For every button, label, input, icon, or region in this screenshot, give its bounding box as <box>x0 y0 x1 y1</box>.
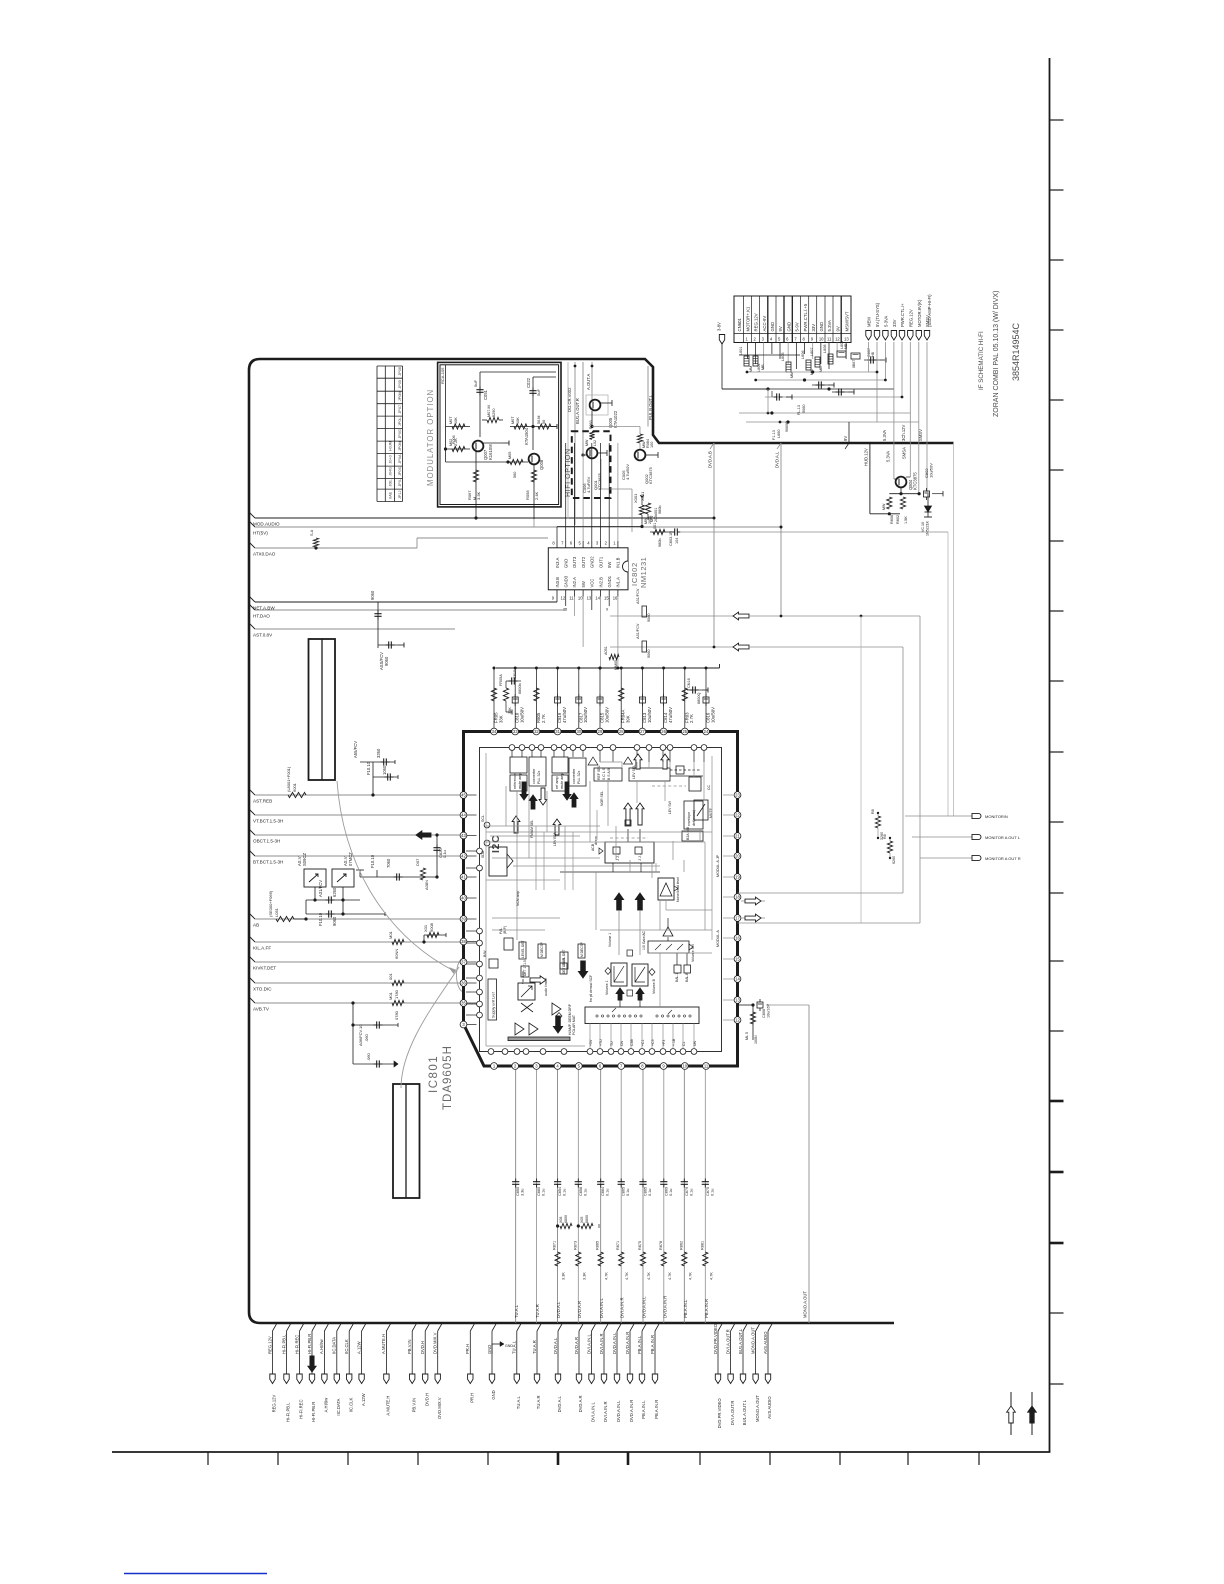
IC801 bottom pin 1 <box>491 1063 498 1070</box>
svg-text:(SSD-AMP-HI-FI): (SSD-AMP-HI-FI) <box>927 294 932 327</box>
svg-text:MOTOR.9V(K): MOTOR.9V(K) <box>917 299 922 327</box>
noise beat level block <box>658 878 674 900</box>
wire riser to Q005 <box>591 362 593 400</box>
svg-text:6800b: 6800b <box>518 683 522 694</box>
svg-text:PUL.B.OUT.L: PUL.B.OUT.L <box>648 394 653 420</box>
svg-text:DVI.A.IN.L: DVI.A.IN.L <box>591 1402 596 1422</box>
transistor Q005 KTA1022 <box>586 395 608 415</box>
svg-text:21: 21 <box>735 834 740 839</box>
IC802 pin 9 <box>556 590 558 597</box>
svg-text:30: 30 <box>576 729 581 734</box>
branch node on AVB.TV <box>351 1001 354 1004</box>
svg-text:M DECSP: M DECSP <box>580 941 584 957</box>
power pin 33V <box>891 331 896 341</box>
svg-text:DO.CR.V002: DO.CR.V002 <box>567 387 572 412</box>
long horizontal wires interior <box>486 825 600 827</box>
svg-text:M01: M01 <box>388 930 393 939</box>
svg-text:BU1.A.OUT.L: BU1.A.OUT.L <box>738 1328 743 1354</box>
wire riser A.OUT.A <box>582 362 584 455</box>
svg-text:1N5221K: 1N5221K <box>926 520 930 536</box>
svg-text:IIC.CLK: IIC.CLK <box>344 1339 349 1354</box>
svg-text:HUD.12V: HUD.12V <box>864 448 869 466</box>
wire to monitor pins <box>947 532 949 816</box>
power pin 5V.(TU-SYS) <box>874 331 879 341</box>
svg-text:I2C: I2C <box>490 835 502 853</box>
transistor Q007 K1610M <box>473 441 484 452</box>
svg-text:DVD.A.IN.L: DVD.A.IN.L <box>616 1400 621 1422</box>
svg-text:001: 001 <box>653 523 657 529</box>
svg-text:J04G: J04G <box>389 467 393 476</box>
capacitor A31/FCV 6260 <box>306 899 360 901</box>
extra dots supply bus <box>599 667 602 670</box>
svg-text:IF SCHEMATIC HI-FI: IF SCHEMATIC HI-FI <box>978 331 985 390</box>
svg-text:L051: L051 <box>274 907 279 917</box>
svg-text:3Ch.12V: 3Ch.12V <box>901 424 906 441</box>
monitor pin A L <box>972 834 981 839</box>
svg-text:2.7K: 2.7K <box>689 714 694 723</box>
capacitor C858 0.1u <box>577 1179 579 1182</box>
switch cross <box>521 1003 533 1012</box>
resistor R806 <box>887 497 892 509</box>
MONO_A_OUT drop wire <box>808 1005 810 1323</box>
IC801 bottom pin 9 <box>660 1063 667 1070</box>
resistor (SE000+F066) L051 <box>276 916 294 921</box>
svg-text:0.1u: 0.1u <box>689 1189 693 1196</box>
svg-text:HB: HB <box>871 351 875 357</box>
svg-text:39: 39 <box>461 917 466 922</box>
capacitor C810 10u/50V <box>514 668 516 728</box>
IC801 left pin 3 <box>460 1021 467 1028</box>
svg-text:REG.12V: REG.12V <box>267 1336 272 1354</box>
svg-text:AST.REB: AST.REB <box>253 799 272 804</box>
capacitor C854 0.1u <box>557 1179 559 1182</box>
svg-text:104: 104 <box>675 538 679 544</box>
svg-text:0780: 0780 <box>394 1010 399 1020</box>
svg-text:A31/FCV: A31/FCV <box>318 880 323 897</box>
svg-text:JP0G: JP0G <box>398 429 402 439</box>
svg-text:0.1u: 0.1u <box>563 1189 567 1196</box>
IC801 top pin 33 <box>512 728 519 735</box>
bw box <box>489 959 498 968</box>
svg-text:GND1: GND1 <box>607 575 612 587</box>
svg-text:DVI.A.IN.L: DVI.A.IN.L <box>599 1298 604 1318</box>
svg-text:A051: A051 <box>604 646 608 655</box>
opamp pair bottom-left <box>515 1023 524 1035</box>
IC802 pin 1 <box>617 541 619 548</box>
svg-text:4.7K: 4.7K <box>647 1272 651 1280</box>
svg-text:A08N: A08N <box>424 880 429 890</box>
IC802 pin 5 <box>582 541 584 548</box>
bottom connector DVD.PR.VIDEO <box>718 1324 722 1331</box>
svg-text:10K: 10K <box>454 417 458 424</box>
svg-text:DVD.H: DVD.H <box>420 1341 425 1354</box>
svg-text:4.7K: 4.7K <box>688 1272 692 1280</box>
bottom connector DVD.A.IN.L <box>617 1324 621 1331</box>
resistor R865 4.7K <box>598 1252 603 1266</box>
block top-left 4 <box>569 758 586 786</box>
interior bus to deemph <box>535 826 537 890</box>
svg-text:A.OUT.A: A.OUT.A <box>586 374 591 390</box>
IC801 inner bottom pins <box>488 1049 494 1055</box>
svg-text:14: 14 <box>735 977 740 982</box>
svg-text:MM: MM <box>749 366 753 372</box>
resistor R881 4.7K <box>703 1252 708 1266</box>
svg-text:C869: C869 <box>664 1187 668 1196</box>
svg-text:38: 38 <box>461 939 466 944</box>
wire net BT.BCT.1.5-3H <box>249 850 255 856</box>
svg-text:TU.A.R: TU.A.R <box>535 1304 540 1318</box>
wire IC801 pin column 9 <box>683 1070 685 1324</box>
wire riser DO.CR.V002 <box>567 362 569 519</box>
svg-text:100: 100 <box>650 442 654 448</box>
svg-text:IN3.A: IN3.A <box>555 557 560 568</box>
IC802 top pin wires <box>565 443 567 541</box>
loop return wire lower <box>738 892 904 894</box>
svg-text:3.3u: 3.3u <box>521 1189 525 1196</box>
crossbar drop wires <box>589 1024 591 1049</box>
svg-text:9008: 9008 <box>429 922 434 932</box>
svg-text:GND: GND <box>505 1344 513 1348</box>
svg-text:R806: R806 <box>890 515 894 524</box>
svg-text:R873: R873 <box>573 1241 577 1250</box>
svg-text:DVD.A.IN.R: DVD.A.IN.R <box>625 1332 630 1354</box>
svg-text:B/W: B/W <box>483 950 487 957</box>
svg-text:PB.A.IN.R: PB.A.IN.R <box>654 1400 659 1419</box>
svg-text:PLL 32x: PLL 32x <box>537 770 541 784</box>
svg-text:GND: GND <box>786 322 791 332</box>
svg-text:MODULATOR OPTION: MODULATOR OPTION <box>426 389 435 486</box>
IC801 right pin 18 <box>734 894 741 901</box>
capacitor pair on AST.REB node <box>372 762 374 795</box>
svg-text:OUT2: OUT2 <box>581 556 586 568</box>
IC802 pin 13 <box>591 590 593 597</box>
svg-text:16: 16 <box>735 936 740 941</box>
svg-text:+.1B: +.1B <box>672 1038 676 1046</box>
wire rail in modulator <box>445 365 447 462</box>
svg-text:A.MUTE.H: A.MUTE.H <box>381 1334 386 1354</box>
svg-text:CN601: CN601 <box>737 318 742 332</box>
resistor R058 2.4K <box>531 470 536 482</box>
resistor FR05 33K <box>493 668 495 728</box>
IC801 top pin 28 <box>618 728 625 735</box>
svg-text:LEVEL DET: LEVEL DET <box>521 940 525 958</box>
IC801 right pin 16 <box>734 935 741 942</box>
svg-text:MB: MB <box>761 364 765 370</box>
svg-text:AVB.TV: AVB.TV <box>253 1007 270 1012</box>
svg-text:HI-FI.PB.L: HI-FI.PB.L <box>281 1334 286 1354</box>
svg-text:IN2.A: IN2.A <box>572 577 577 588</box>
svg-text:TU.A.R: TU.A.R <box>536 1395 541 1409</box>
svg-text:10u/16V: 10u/16V <box>767 1003 771 1018</box>
IC801 left pin 42 <box>460 853 467 860</box>
capacitor C879 0.1u <box>683 1179 685 1182</box>
svg-text:PB.V.IN: PB.V.IN <box>407 1339 412 1354</box>
svg-text:41: 41 <box>461 875 466 880</box>
wire Q008 emitter down <box>533 465 535 519</box>
svg-text:C806: C806 <box>762 1009 766 1018</box>
svg-text:13: 13 <box>587 596 592 601</box>
frame tick marks bottom edge <box>207 1452 209 1465</box>
block top-left 2 <box>529 757 546 786</box>
black arrow pair mid <box>614 893 623 910</box>
resistor R805 2.7K <box>535 668 537 728</box>
svg-text:R058: R058 <box>525 490 530 500</box>
svg-text:5W: 5W <box>581 581 586 587</box>
svg-text:5W: 5W <box>607 562 612 568</box>
capacitor C850 3.3u <box>515 1179 517 1182</box>
svg-text:CN16: CN16 <box>687 678 691 688</box>
svg-text:GND: GND <box>487 1345 492 1354</box>
mute switch block <box>694 800 708 820</box>
capacitor C-net 9060 on HT.DAO <box>377 602 379 629</box>
IC801 right pin 14 <box>734 976 741 983</box>
IC802 pin 14 <box>600 590 602 597</box>
resistor L8001+F001 6001 on AST.REB <box>288 792 306 797</box>
deemphasis block <box>605 842 654 863</box>
svg-text:10u/50V: 10u/50V <box>647 707 652 723</box>
IC801 right pin 17 <box>734 915 741 922</box>
IC801 left pin 39 <box>460 916 467 923</box>
svg-text:13: 13 <box>735 998 740 1003</box>
connector CN601 table <box>734 296 851 343</box>
svg-text:F1.13: F1.13 <box>772 430 776 440</box>
svg-text:DVD.A.L: DVD.A.L <box>556 1301 561 1318</box>
IC801 bottom pin 6 <box>597 1063 604 1070</box>
svg-text:KTA1504: KTA1504 <box>524 427 529 445</box>
node and wire to R064 <box>591 411 593 427</box>
svg-text:R862: R862 <box>679 1241 683 1250</box>
svg-text:mute amp: mute amp <box>518 773 522 789</box>
IC802 pin 7 <box>565 541 567 548</box>
svg-text:10u/50V: 10u/50V <box>583 707 588 723</box>
IC801 left pin 44 <box>460 812 467 819</box>
wire net ATX0.DAO <box>249 542 255 548</box>
svg-text:DVD.A.R: DVD.A.R <box>574 1337 579 1354</box>
svg-text:CN: CN <box>620 1040 624 1046</box>
svg-text:J0E.: J0E. <box>389 479 393 487</box>
svg-text:0.1u: 0.1u <box>583 1189 587 1196</box>
svg-text:converter: converter <box>572 768 576 784</box>
svg-text:IN3.B: IN3.B <box>555 577 560 588</box>
svg-text:4.7K: 4.7K <box>709 1272 713 1280</box>
svg-text:POLAR MAT: POLAR MAT <box>572 1014 576 1035</box>
inductor L608 <box>828 354 833 364</box>
op IC801 TDA9605H outer body <box>464 732 738 1067</box>
svg-text:R067: R067 <box>467 490 472 500</box>
wire with hollow arrow (lower) <box>610 646 733 648</box>
svg-text:+TU: +TU <box>599 1039 603 1046</box>
wires from blocks to pins <box>511 751 513 758</box>
svg-text:20: 20 <box>735 854 740 859</box>
svg-text:C860: C860 <box>537 1187 541 1196</box>
IC801 bottom pin 2 <box>512 1063 519 1070</box>
page navigation arrow (filled) <box>1031 1392 1033 1435</box>
svg-text:JP0J: JP0J <box>398 478 402 487</box>
svg-text:M0T: M0T <box>449 416 453 424</box>
shield block rectangle upper <box>309 639 336 780</box>
svg-text:C850: C850 <box>516 1187 520 1196</box>
svg-text:NM1231: NM1231 <box>639 557 648 588</box>
svg-text:NCM amp: NCM amp <box>516 891 520 906</box>
capacitor C813 10u/50V <box>641 668 643 728</box>
svg-text:SDA: SDA <box>481 850 485 858</box>
page frame bottom border line <box>112 1451 1050 1453</box>
svg-text:39K: 39K <box>626 715 631 723</box>
IC802 pin 12 <box>565 590 567 597</box>
resistor M01 0780 on AVB.TV <box>392 1000 404 1005</box>
wire jog net ATX0.DAO <box>416 538 418 548</box>
inductor L606 <box>806 360 811 370</box>
svg-text:JP0L: JP0L <box>398 417 402 426</box>
bottom connector BU1.A.OUT.L <box>743 1324 747 1331</box>
svg-text:PB.A.IN.L: PB.A.IN.L <box>637 1335 642 1354</box>
svg-text:37: 37 <box>461 960 466 965</box>
block top-left 3 <box>552 757 568 773</box>
svg-text:9060: 9060 <box>647 650 651 658</box>
IC802 pin 4 <box>591 541 593 548</box>
svg-text:TU.A.R: TU.A.R <box>532 1340 537 1354</box>
wire Q007 emitter down <box>475 452 477 518</box>
svg-text:JP0S: JP0S <box>398 466 402 476</box>
bottom connector DVD.H <box>425 1324 429 1331</box>
IC801 top pin 24 <box>703 728 710 735</box>
resistor X001 200b <box>645 503 650 514</box>
svg-text:XTO.DIC: XTO.DIC <box>253 987 272 992</box>
svg-text:PB.A.IN.R: PB.A.IN.R <box>704 1299 709 1318</box>
svg-text:R865: R865 <box>596 1241 600 1250</box>
level det blocks row <box>519 942 526 959</box>
svg-text:OBCT.1.5-3H: OBCT.1.5-3H <box>253 839 280 844</box>
svg-text:MODUL.A.JP: MODUL.A.JP <box>716 854 720 877</box>
svg-text:10u/50V: 10u/50V <box>604 707 609 723</box>
svg-text:AVS.AUDIO: AVS.AUDIO <box>763 1331 768 1354</box>
svg-text:DVD.A.IN.L: DVD.A.IN.L <box>612 1332 617 1354</box>
svg-text:+C1: +C1 <box>641 1039 645 1046</box>
wire net OBCT.1.5-3H <box>249 829 255 835</box>
svg-text:MM: MM <box>790 372 794 378</box>
svg-text:0B67: 0B67 <box>852 360 856 368</box>
wire riser BU1.A.OUT.R <box>574 362 576 525</box>
svg-text:IIC.CLK: IIC.CLK <box>348 1398 353 1413</box>
wire IC801 pin column 5 <box>600 1070 602 1324</box>
svg-text:L02: L02 <box>593 440 597 446</box>
wire net AVB.TV <box>249 997 255 1003</box>
svg-text:42: 42 <box>461 854 466 859</box>
volume select bar <box>648 941 689 953</box>
interior mid connection wires <box>636 781 638 803</box>
svg-text:100N: 100N <box>754 1035 758 1044</box>
resistor R873 3.3K <box>576 1252 581 1266</box>
svg-text:9060: 9060 <box>802 405 806 413</box>
svg-text:25: 25 <box>563 608 567 612</box>
svg-text:33: 33 <box>513 729 518 734</box>
svg-text:4.7K: 4.7K <box>668 1272 672 1280</box>
supply unit block <box>488 979 497 1020</box>
svg-text:LEV SW: LEV SW <box>668 800 672 814</box>
IC801 top pin 30 <box>575 728 582 735</box>
capacitor C865 0.1u <box>642 1179 644 1182</box>
power pin REG.12V <box>908 331 913 341</box>
supply bus above IC801 <box>496 667 720 669</box>
svg-text:0.1u: 0.1u <box>606 1189 610 1196</box>
svg-text:0.1u: 0.1u <box>710 1189 714 1196</box>
svg-text:deem: deem <box>594 836 598 845</box>
svg-text:5V.(TU-SYS): 5V.(TU-SYS) <box>875 302 880 327</box>
wire IC801 pin column 2 <box>536 1070 538 1324</box>
svg-text:DVD.PR.VIDEO: DVD.PR.VIDEO <box>713 1323 718 1354</box>
svg-text:A.MUTE.H: A.MUTE.H <box>386 1396 391 1416</box>
svg-text:9060: 9060 <box>647 614 651 622</box>
IC801 top pin 29 <box>597 728 604 735</box>
power pin SMSV <box>924 331 929 341</box>
capacitor .060 lower <box>353 1063 398 1065</box>
svg-text:C865: C865 <box>622 1187 626 1196</box>
svg-text:3-8V: 3-8V <box>717 322 722 331</box>
svg-text:ACC-9V: ACC-9V <box>762 316 767 332</box>
hyperlink underline bottom-left <box>124 1573 267 1575</box>
capacitor C815 10u/50V <box>599 668 601 728</box>
svg-text:A.12W: A.12W <box>356 1341 361 1354</box>
IC801 bottom pin 11 <box>703 1063 710 1070</box>
block reference top-left 1 <box>510 757 527 773</box>
svg-text:DVI.A.IN.R: DVI.A.IN.R <box>599 1334 604 1354</box>
svg-text:IIC.DATA: IIC.DATA <box>336 1398 341 1415</box>
svg-text:HI-FI.PB.L: HI-FI.PB.L <box>286 1402 291 1422</box>
IC801 top pin 31 <box>554 728 561 735</box>
svg-text:DVD.A.B: DVD.A.B <box>708 451 713 468</box>
wire net AB <box>249 913 255 919</box>
IC801 left pin 41 <box>460 874 467 881</box>
svg-text:10: 10 <box>578 596 583 601</box>
shield block rectangle lower <box>393 1084 420 1198</box>
svg-text:A31/FCV: A31/FCV <box>636 623 640 639</box>
svg-text:+C9: +C9 <box>651 1039 655 1046</box>
wire riser PUL.B.OUT.L <box>647 366 649 427</box>
svg-text:envelope: envelope <box>687 812 691 826</box>
svg-text:H0JM: H0JM <box>389 441 393 451</box>
resistor R802 1.5K <box>900 497 905 509</box>
svg-text:PWR.CTL./.+5: PWR.CTL./.+5 <box>803 303 808 331</box>
svg-text:ZORAN COMBI PAL 05.10.13 (W/ D: ZORAN COMBI PAL 05.10.13 (W/ DIVX) <box>993 291 1000 417</box>
wire riser HT(5V) to board edge <box>780 443 782 616</box>
resistor A051 <box>609 654 619 659</box>
bottom connector A.MUTE.H <box>386 1324 390 1331</box>
bottom connector DVI.A.IN.R <box>604 1324 608 1331</box>
transistor Q804 KTC3875 <box>896 477 907 488</box>
IC802 pin 11 <box>573 590 575 597</box>
svg-text:R063: R063 <box>589 420 593 429</box>
resistor 001 1780 on KIVKT.DET <box>392 980 404 985</box>
svg-text:F10.10: F10.10 <box>366 761 371 775</box>
svg-text:3.3K: 3.3K <box>562 1272 566 1280</box>
inductor L607 <box>815 357 820 367</box>
black down arrow interior 2 <box>553 1016 562 1033</box>
svg-text:GND2: GND2 <box>590 556 595 568</box>
svg-text:+5V: +5V <box>589 1039 593 1046</box>
wire with hollow arrow (upper) <box>610 615 733 617</box>
svg-text:Volume 1: Volume 1 <box>605 980 609 995</box>
small dac block right <box>689 777 701 791</box>
svg-text:9: 9 <box>606 608 608 612</box>
connector pin 3-8V <box>719 335 724 345</box>
svg-text:VC.10: VC.10 <box>921 522 925 532</box>
svg-text:10u/50V: 10u/50V <box>520 707 525 723</box>
svg-text:REG.12V: REG.12V <box>272 1395 277 1413</box>
svg-text:REG.12V: REG.12V <box>754 313 759 331</box>
pal bg block <box>504 938 513 950</box>
svg-text:33K: 33K <box>498 715 503 723</box>
IC801 left pin 37 <box>460 959 467 966</box>
